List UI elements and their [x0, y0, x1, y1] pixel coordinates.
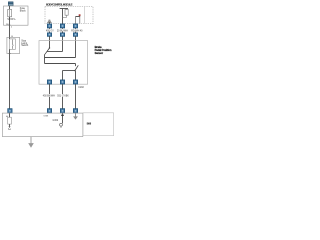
wires pins to connectors [49, 28, 51, 33]
wire fuse block to switch [9, 17, 11, 38]
internal divider [84, 7, 86, 24]
BCM pin 2 [60, 24, 64, 28]
sensor pin b [60, 80, 64, 84]
svg-text:BODY CONTROL MODULE: BODY CONTROL MODULE [46, 2, 73, 6]
connector C1 on fuse block [8, 2, 13, 6]
svg-text:551 GY/BK: 551 GY/BK [57, 96, 69, 98]
sensor pin a [47, 80, 51, 84]
sensor lower wires [63, 70, 75, 72]
inline connector row C2 c [73, 33, 77, 37]
svg-text:/WH 40: /WH 40 [75, 30, 83, 32]
svg-text:Sensor: Sensor [95, 51, 103, 55]
fuse F1 [8, 9, 12, 16]
wire connector to fuse [9, 6, 11, 10]
inline component under left connector [8, 117, 12, 124]
resistor R1 [66, 8, 68, 11]
harness box right [83, 113, 114, 136]
body control module dashed box [45, 7, 93, 24]
BCM pin 3 [73, 24, 77, 28]
svg-text:STOP-L: STOP-L [7, 18, 16, 21]
svg-text:450 GY: 450 GY [46, 30, 54, 32]
lower bus [45, 63, 76, 65]
off page arrow under c3 [73, 113, 78, 119]
svg-text:450 BK/WH: 450 BK/WH [43, 96, 55, 98]
brake pedal position sensor box [39, 41, 88, 85]
splice wire under c2 [62, 113, 64, 123]
wire r bus [45, 57, 76, 59]
wire switch to ground box [9, 54, 11, 109]
svg-text:G302: G302 [53, 120, 59, 122]
wire switch through [9, 37, 11, 39]
svg-text:B66: B66 [87, 123, 92, 126]
wire m to blade [47, 51, 63, 53]
internal rail T-bar [60, 8, 68, 10]
wire label row 2 [43, 94, 56, 97]
ground dist connector 0 [8, 109, 12, 114]
BCM pin 1 [47, 24, 51, 28]
off page arrow bottom [28, 137, 34, 148]
internal signal wire [62, 9, 64, 24]
svg-text:20 BU/WH: 20 BU/WH [57, 30, 68, 32]
stop lamp switch box [7, 37, 20, 53]
svg-text:Switch: Switch [21, 44, 29, 47]
svg-text:C202: C202 [78, 87, 84, 89]
ground dist connector 2 [60, 109, 64, 114]
fuse block box [4, 6, 29, 25]
inline connector row C2 b [60, 33, 64, 37]
switch body [10, 39, 16, 49]
wire label row 1 [46, 29, 53, 32]
ground G1 [9, 126, 11, 128]
switch blade 2 [75, 65, 78, 70]
ground G2 [60, 123, 63, 126]
svg-text:5 BK: 5 BK [44, 116, 49, 118]
switch blade 1 [49, 47, 50, 48]
wires to sensor [49, 36, 51, 48]
sensor pin c [73, 80, 77, 84]
wires sensor to ground box [49, 84, 51, 109]
ground dist connector 3 [73, 109, 77, 114]
ground dist connector 1 [47, 109, 51, 114]
internal ground in BCM [47, 20, 51, 24]
internal input with red flag [76, 14, 81, 24]
inline connector row C2 a [47, 33, 51, 37]
harness box left [2, 113, 82, 137]
svg-text:Block: Block [20, 9, 27, 12]
